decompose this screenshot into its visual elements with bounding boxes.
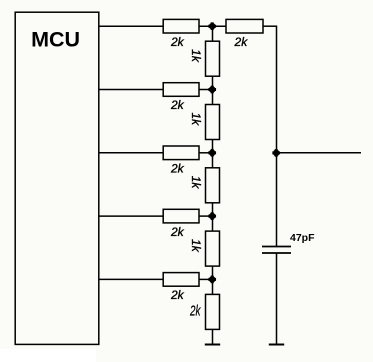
resistor R1 2k (163, 19, 226, 33)
resistor R6 1k vertical (206, 41, 220, 76)
svg-text:MCU: MCU (31, 27, 80, 51)
node junction row1 (208, 22, 216, 30)
node junction row2 (208, 86, 216, 94)
node junction row5 (208, 276, 216, 284)
svg-text:1k: 1k (189, 112, 203, 126)
svg-text:1k: 1k (189, 176, 203, 190)
MCU U1 box (15, 12, 99, 344)
white patch bottom-left (0, 349, 96, 362)
ground ladder (205, 344, 220, 346)
ground capacitor (269, 344, 284, 346)
resistor R4 2k (163, 209, 212, 223)
svg-text:2k: 2k (234, 35, 249, 49)
wire pin1 MCU to R1 (99, 25, 164, 27)
svg-text:2k: 2k (170, 288, 185, 302)
resistor R9 1k vertical (206, 231, 220, 266)
wire pin3 MCU to R3 (99, 152, 164, 154)
svg-text:2k: 2k (189, 303, 201, 319)
svg-text:2k: 2k (170, 98, 185, 112)
resistor R5 2k (163, 273, 212, 287)
wire capacitor to ground (276, 253, 278, 345)
wire pin5 MCU to R5 (99, 278, 164, 280)
resistor R8 1k vertical (206, 168, 220, 203)
wire output to right edge (277, 152, 362, 154)
svg-text:2k: 2k (170, 225, 185, 239)
resistor R2 2k (163, 83, 212, 97)
capacitor C1 47pF (262, 247, 291, 254)
resistor R10 2k vertical bottom (206, 294, 220, 329)
wire ladder vertical bus (212, 26, 214, 344)
svg-text:2k: 2k (170, 162, 185, 176)
svg-text:1k: 1k (189, 239, 203, 253)
node junction row4 (208, 212, 216, 220)
svg-text:1k: 1k (189, 49, 203, 63)
resistor R11 2k top output (226, 19, 277, 33)
resistor R7 1k vertical (206, 105, 220, 140)
node junction row3 (208, 149, 216, 157)
wire output branch vertical (276, 26, 278, 246)
svg-text:47pF: 47pF (290, 232, 315, 244)
wire pin4 MCU to R4 (99, 215, 164, 217)
node junction output (272, 149, 280, 157)
wire pin2 MCU to R2 (99, 89, 164, 91)
svg-text:2k: 2k (170, 35, 185, 49)
resistor R3 2k (163, 146, 212, 160)
